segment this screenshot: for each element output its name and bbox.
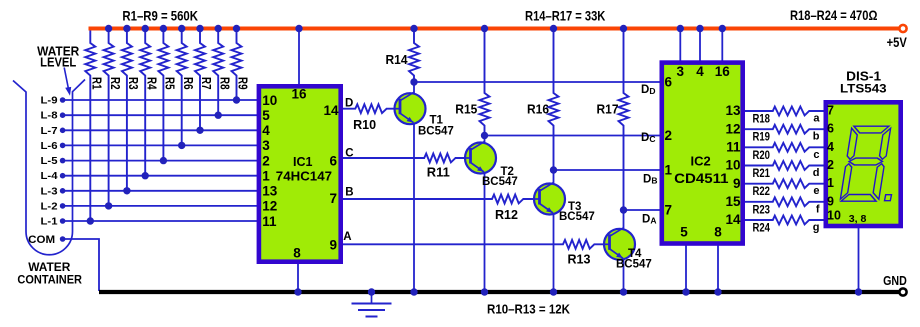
svg-text:R2: R2 xyxy=(108,77,122,90)
resistor R2 (560K) vertical with lead down to L-2 row xyxy=(104,29,114,206)
wire IC2 pin 5 to ground rail xyxy=(685,244,687,292)
wire IC2 pin 4 to +5V rail xyxy=(699,29,701,63)
svg-text:14: 14 xyxy=(323,103,339,118)
wire L-3 sensor to IC1 pin xyxy=(63,190,259,192)
+5V power rail xyxy=(89,27,899,31)
svg-text:BC547: BC547 xyxy=(616,259,652,271)
wire + resistor R22 (470 ohm) IC2 to display segment e xyxy=(743,179,825,188)
wire T4 emitter to ground rail xyxy=(623,257,625,292)
svg-text:R17: R17 xyxy=(597,101,619,116)
svg-text:4: 4 xyxy=(827,140,834,154)
svg-text:7: 7 xyxy=(665,203,673,218)
transistor T1 BC547 xyxy=(395,92,426,124)
svg-text:DA: DA xyxy=(642,214,656,226)
svg-text:D: D xyxy=(345,98,353,110)
wire COM to ground rail xyxy=(63,239,99,291)
svg-text:11: 11 xyxy=(726,140,741,155)
svg-text:GND: GND xyxy=(883,273,907,288)
svg-text:L-8: L-8 xyxy=(41,110,58,122)
svg-text:8: 8 xyxy=(714,225,722,240)
svg-text:R13: R13 xyxy=(568,252,591,267)
svg-text:LTS543: LTS543 xyxy=(840,82,887,96)
svg-text:R1: R1 xyxy=(90,77,104,90)
svg-text:3, 8: 3, 8 xyxy=(849,213,867,225)
svg-text:1: 1 xyxy=(665,163,673,178)
resistor R6 (560K) vertical with lead down to L-6 row xyxy=(177,29,187,146)
svg-text:3: 3 xyxy=(262,138,270,153)
svg-text:COM: COM xyxy=(28,234,55,246)
svg-text:R16: R16 xyxy=(527,101,549,116)
resistor R9 (560K) vertical with lead down to L-9 row xyxy=(232,29,242,101)
svg-text:8: 8 xyxy=(293,245,301,260)
svg-text:R23: R23 xyxy=(753,204,771,216)
wire T2 emitter to ground rail xyxy=(484,171,486,292)
wire + resistor R20 (470 ohm) IC2 to display segment c xyxy=(743,143,825,152)
junction dots on ground rail xyxy=(294,288,862,295)
junction dots transistor collector nodes xyxy=(410,78,627,213)
wire + resistor R18 (470 ohm) IC2 to display segment a xyxy=(743,107,825,116)
svg-text:5: 5 xyxy=(262,108,270,123)
labels R18-R24 xyxy=(753,114,771,235)
wire + resistor R21 (470 ohm) IC2 to display segment d xyxy=(743,161,825,170)
svg-text:1: 1 xyxy=(827,176,834,190)
svg-text:R18–R24 = 470Ω: R18–R24 = 470Ω xyxy=(790,7,877,23)
wire + resistor R19 (470 ohm) IC2 to display segment b xyxy=(743,125,825,134)
svg-text:L-2: L-2 xyxy=(41,200,58,212)
wire L-8 sensor to IC1 pin xyxy=(63,114,259,116)
wire node Dd (T1 collector to IC2 pin 6) xyxy=(414,81,661,83)
display pin numbers xyxy=(827,104,867,226)
wire + resistor R12 (IC1 pin7 B to T3 base) xyxy=(341,195,546,204)
resistor R1 (560K) vertical with lead down to L-1 row xyxy=(85,29,95,222)
svg-text:R10: R10 xyxy=(353,117,376,132)
transistor T2 BC547 xyxy=(465,142,496,174)
IC1 74HC147 body xyxy=(259,86,341,261)
svg-text:CD4511: CD4511 xyxy=(674,170,729,186)
wire node Db (T3 collector to IC2 pin 1) xyxy=(554,169,662,171)
svg-text:R22: R22 xyxy=(753,186,771,198)
svg-text:R7: R7 xyxy=(199,77,213,90)
resistor R16 (33K) from +5V rail to T3 collector node xyxy=(549,29,559,171)
svg-text:R14–R17 = 33K: R14–R17 = 33K xyxy=(525,7,605,23)
svg-text:2: 2 xyxy=(827,158,834,172)
wire L-6 sensor to IC1 pin xyxy=(63,144,259,146)
svg-text:d: d xyxy=(813,167,820,179)
resistor R15 (33K) from +5V rail to T2 collector node xyxy=(480,29,490,136)
svg-text:DB: DB xyxy=(643,174,657,186)
water level pointer arrow xyxy=(64,68,71,96)
svg-text:CONTAINER: CONTAINER xyxy=(17,272,82,286)
wire T3 emitter to ground rail xyxy=(553,212,555,292)
wire + resistor R23 (470 ohm) IC2 to display segment f xyxy=(743,197,825,206)
wire T3 collector stub xyxy=(553,170,555,185)
svg-text:L-3: L-3 xyxy=(41,185,58,197)
7-segment digit 8 inside display xyxy=(840,126,891,201)
svg-text:b: b xyxy=(813,131,820,143)
svg-text:g: g xyxy=(813,222,820,234)
svg-text:R18: R18 xyxy=(753,114,771,126)
label WATER CONTAINER xyxy=(17,260,82,286)
svg-text:L-4: L-4 xyxy=(41,170,58,182)
svg-text:14: 14 xyxy=(725,212,741,227)
+5V terminal circle xyxy=(899,25,906,32)
wire L-2 sensor to IC1 pin xyxy=(63,205,259,207)
svg-text:R3: R3 xyxy=(126,77,140,90)
svg-text:74HC147: 74HC147 xyxy=(276,169,332,184)
svg-text:R24: R24 xyxy=(753,223,771,235)
svg-text:6: 6 xyxy=(329,153,337,168)
IC2 labels and pin numbers xyxy=(665,64,741,240)
wire T1 emitter to ground rail xyxy=(413,122,415,292)
svg-text:L-5: L-5 xyxy=(41,155,58,167)
svg-text:15: 15 xyxy=(725,194,741,209)
svg-text:+5V: +5V xyxy=(887,35,907,50)
resistor R5 (560K) vertical with lead down to L-5 row xyxy=(158,29,168,161)
svg-text:2: 2 xyxy=(262,153,270,168)
svg-text:c: c xyxy=(813,149,819,161)
labels segment letters a-g xyxy=(813,113,821,234)
svg-text:10: 10 xyxy=(262,93,277,108)
resistor R17 (33K) from +5V rail to T4 collector node xyxy=(619,29,629,211)
IC2 CD4511 body xyxy=(662,63,743,244)
svg-text:L-1: L-1 xyxy=(41,216,58,228)
wire IC1 pin 8 to ground rail xyxy=(297,262,299,292)
labels T1-T4 BC547 xyxy=(418,114,652,270)
wire IC2 pin 16 to +5V rail xyxy=(721,29,723,63)
labels R14-R17 xyxy=(386,52,619,116)
transistor T4 BC547 xyxy=(604,228,635,260)
wire + resistor R11 (IC1 pin6 C to T2 base) xyxy=(341,154,477,163)
wire IC2 pin 3 to +5V rail xyxy=(679,29,681,63)
svg-text:R10–R13 = 12K: R10–R13 = 12K xyxy=(487,301,571,316)
svg-text:13: 13 xyxy=(725,103,741,118)
svg-text:11: 11 xyxy=(262,214,277,229)
GND terminal circle xyxy=(899,288,906,295)
svg-text:C: C xyxy=(345,148,353,160)
svg-text:6: 6 xyxy=(665,75,673,90)
svg-text:16: 16 xyxy=(291,86,307,101)
svg-text:R11: R11 xyxy=(427,164,450,179)
wire + resistor R24 (470 ohm) IC2 to display segment g xyxy=(743,216,825,225)
display title DIS-1 LTS543 xyxy=(840,70,887,96)
labels L-9..L-1 and COM xyxy=(28,95,57,246)
labels D C B A output lines xyxy=(343,98,353,243)
labels Dd Dc Db Da xyxy=(641,84,657,226)
IC1 labels and pin numbers xyxy=(262,86,339,260)
resistor R7 (560K) vertical with lead down to L-7 row xyxy=(195,29,205,131)
svg-text:16: 16 xyxy=(715,64,731,79)
wire IC2 pin 8 to ground rail xyxy=(717,244,719,292)
svg-text:R6: R6 xyxy=(181,77,195,90)
wire node Da (T4 collector to IC2 pin 7) xyxy=(624,209,662,211)
svg-text:f: f xyxy=(816,203,820,215)
ground rail xyxy=(99,290,899,294)
wire T1 collector stub xyxy=(413,82,415,95)
water container outline xyxy=(13,80,85,255)
wire L-1 sensor to IC1 pin xyxy=(63,220,259,222)
wire + resistor R10 (IC1 pin14 D to T1 base) xyxy=(341,104,406,113)
svg-text:R1–R9 = 560K: R1–R9 = 560K xyxy=(122,8,198,24)
resistor R3 (560K) vertical with lead down to L-3 row xyxy=(122,29,132,191)
junction dots resistor-to-level-wire xyxy=(87,96,241,224)
svg-text:R5: R5 xyxy=(163,77,177,90)
svg-text:R8: R8 xyxy=(217,77,231,90)
svg-text:L-9: L-9 xyxy=(41,95,58,107)
svg-text:9: 9 xyxy=(733,176,741,191)
wire + resistor R13 (IC1 pin9 A to T4 base) xyxy=(341,240,616,249)
svg-text:DC: DC xyxy=(641,132,655,144)
svg-text:a: a xyxy=(813,113,820,125)
svg-text:9: 9 xyxy=(827,194,834,208)
resistor R8 (560K) vertical with lead down to L-8 row xyxy=(213,29,223,116)
svg-text:R9: R9 xyxy=(236,77,250,90)
wire L-5 sensor to IC1 pin xyxy=(63,160,259,162)
svg-text:R12: R12 xyxy=(495,207,518,222)
svg-text:L-7: L-7 xyxy=(41,125,58,137)
ground symbol xyxy=(352,292,392,317)
sensor electrode dots L-9..L-1 and COM xyxy=(60,97,66,242)
svg-text:BC547: BC547 xyxy=(482,176,518,188)
svg-text:1: 1 xyxy=(262,169,270,184)
wire display common cathode pins 3,8 to ground rail xyxy=(858,226,860,292)
wire L-4 sensor to IC1 pin xyxy=(63,175,259,177)
svg-text:R14: R14 xyxy=(386,52,409,67)
labels R10-R13 xyxy=(353,117,590,267)
svg-text:R19: R19 xyxy=(753,132,771,144)
svg-text:B: B xyxy=(345,186,353,198)
wire node Dc (T2 collector to IC2 pin 2) xyxy=(485,135,662,137)
display decimal point xyxy=(885,195,892,201)
svg-text:R20: R20 xyxy=(753,150,771,162)
svg-text:13: 13 xyxy=(262,184,278,199)
labels rotated R1..R9 xyxy=(90,77,250,90)
svg-text:7: 7 xyxy=(827,104,834,118)
svg-text:4: 4 xyxy=(696,64,704,79)
wire T4 collector stub xyxy=(623,210,625,230)
svg-text:LEVEL: LEVEL xyxy=(40,56,77,70)
svg-text:R4: R4 xyxy=(144,77,158,90)
svg-text:10: 10 xyxy=(725,158,740,173)
display DIS-1 LTS543 body xyxy=(826,102,901,226)
svg-text:L-6: L-6 xyxy=(41,140,58,152)
wire L-7 sensor to IC1 pin xyxy=(63,129,259,131)
svg-text:R15: R15 xyxy=(455,101,477,116)
label WATER LEVEL xyxy=(37,45,79,70)
svg-text:12: 12 xyxy=(262,199,277,214)
svg-text:6: 6 xyxy=(827,122,834,136)
svg-text:7: 7 xyxy=(329,191,337,206)
wire L-9 sensor to IC1 pin xyxy=(63,99,259,101)
svg-text:9: 9 xyxy=(329,237,337,252)
svg-text:e: e xyxy=(813,185,819,197)
svg-text:IC2: IC2 xyxy=(690,154,710,169)
svg-text:2: 2 xyxy=(665,128,673,143)
svg-text:12: 12 xyxy=(725,121,740,136)
transistor T3 BC547 xyxy=(534,183,565,215)
svg-text:10: 10 xyxy=(827,209,841,223)
svg-text:3: 3 xyxy=(677,64,685,79)
wire IC1 pin 16 to +5V rail xyxy=(298,29,300,87)
wire T2 collector stub xyxy=(484,136,486,145)
svg-text:DD: DD xyxy=(641,84,655,96)
svg-text:R21: R21 xyxy=(753,168,771,180)
resistor R4 (560K) vertical with lead down to L-4 row xyxy=(140,29,150,176)
svg-text:A: A xyxy=(343,231,351,243)
svg-text:IC1: IC1 xyxy=(293,155,313,169)
resistor R14 (33K) from +5V rail to T1 collector node xyxy=(409,29,419,83)
svg-text:BC547: BC547 xyxy=(418,125,454,137)
svg-text:4: 4 xyxy=(262,123,270,138)
svg-text:5: 5 xyxy=(680,225,688,240)
svg-text:BC547: BC547 xyxy=(559,211,595,223)
junction dots on +5V rail xyxy=(105,25,726,32)
